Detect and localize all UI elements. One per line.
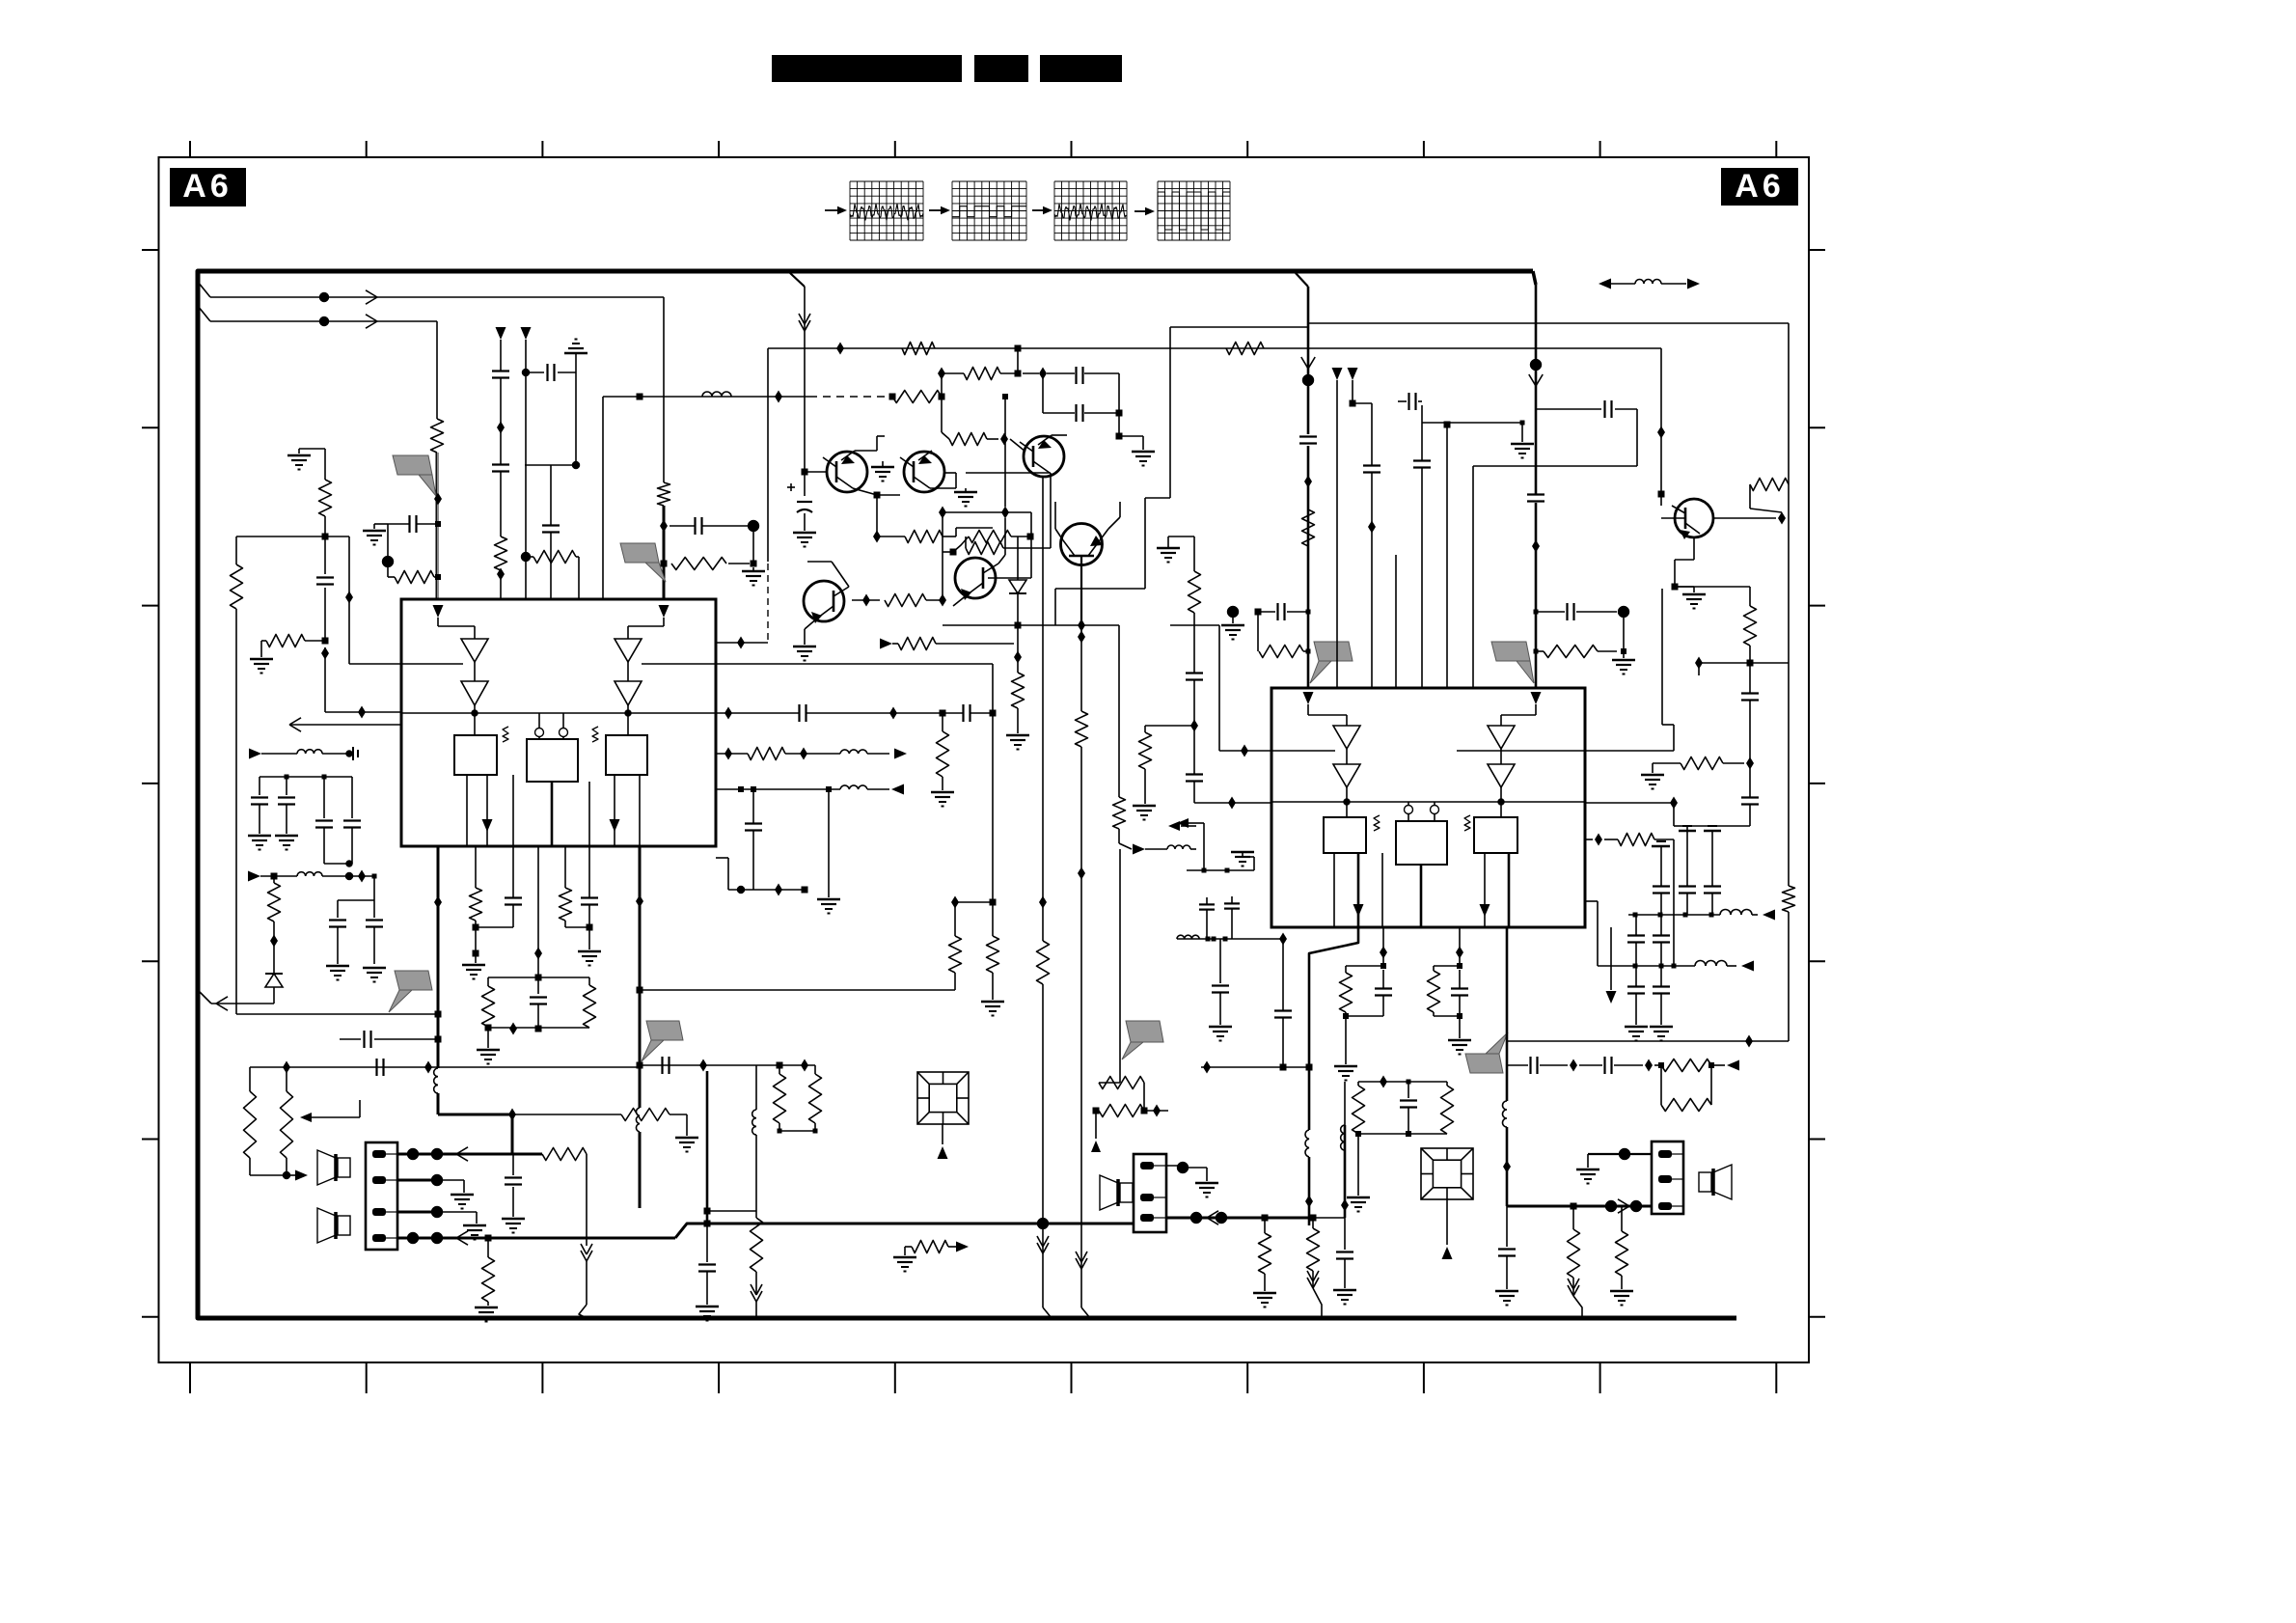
U1 squiggle 2: [592, 727, 598, 742]
cluster C legs: [1353, 1082, 1454, 1137]
double chevron x608: [581, 1244, 592, 1261]
resistor R210: [1568, 1206, 1580, 1294]
U2 box arrows: [1353, 904, 1490, 917]
capacitor C154: [248, 777, 271, 850]
Q3 base wire: [1025, 451, 1033, 453]
wire J1 pin2: [397, 1174, 474, 1209]
wire column x1723: [1662, 589, 1674, 751]
wire riser x1722: [1660, 348, 1662, 482]
waveform scope grid 1: [850, 181, 923, 240]
resistor R121: [902, 343, 935, 355]
Q7 collector: [998, 518, 1005, 564]
inductor L6: [1695, 961, 1727, 967]
inductor L8: [1305, 1130, 1309, 1157]
wire 1069 vertical: [988, 512, 1031, 578]
wire x834 low: [804, 472, 806, 531]
junction diamond y738: [358, 706, 366, 719]
U1 rail dots: [472, 710, 632, 717]
junction diamond 1761-687: [1695, 657, 1703, 670]
junction diamond 755-781: [724, 748, 732, 760]
junction dots y908: [345, 870, 374, 883]
junction diamond 1121-648: [1078, 619, 1085, 632]
arrow off-page y1001: [1727, 961, 1754, 972]
wire 388 down: [372, 874, 377, 901]
wire net y337: [1170, 323, 1789, 327]
resonator: [322, 747, 358, 760]
junction square 988-572: [950, 549, 957, 556]
U1 buffer A2 link: [474, 662, 476, 681]
wire x1394: [1341, 1125, 1349, 1218]
capacitor C206: [1186, 775, 1203, 782]
resistor R103: [671, 558, 750, 570]
wire pin x600: [521, 551, 579, 600]
capacitor C120: [1077, 367, 1083, 384]
inductor L5: [752, 1110, 756, 1135]
junction diamond 807-922: [775, 884, 782, 896]
Q3 collector down: [1043, 473, 1050, 477]
wire x1394 up link: [1344, 1082, 1346, 1125]
callout flag F3: [642, 1021, 683, 1061]
junction diamond y361-871: [836, 343, 844, 355]
junction diamond 1277-832: [1228, 797, 1236, 810]
resistor R102: [658, 482, 670, 506]
wire x337 to U1 pin y739: [325, 647, 401, 712]
junction square 977-739: [940, 710, 946, 717]
capacitor C212: [1741, 694, 1759, 701]
signal arrow down x545: [521, 327, 532, 340]
wire y908 net: [248, 871, 349, 882]
zener diode D2: [265, 941, 283, 1004]
capacitor C204: [1398, 393, 1422, 410]
U1 cell box 2: [527, 739, 578, 782]
junction square 663-1104: [637, 1062, 643, 1069]
cluster A: [1340, 963, 1393, 1019]
wire 1735 south: [1674, 803, 1687, 826]
arrow off-page y948: [1752, 910, 1775, 921]
junction diamond 1290-778: [1219, 745, 1271, 757]
U1 box1 arrow: [482, 819, 493, 832]
waveform arrow 2: [929, 206, 950, 214]
wire x362 to U1: [349, 536, 401, 664]
junction diamond 444-1106: [424, 1061, 432, 1074]
arrow off-page 1187: [1133, 844, 1196, 855]
wire net y1104 far right: [1507, 1057, 1739, 1074]
Q6 collector wire: [807, 562, 849, 587]
wire y648 into U2 area: [1170, 625, 1219, 751]
sheet label A6 right: [1721, 168, 1798, 206]
cluster C vertical up: [1382, 1069, 1384, 1082]
cluster A ground: [1334, 1016, 1357, 1081]
wire y1077 stub: [340, 1031, 438, 1048]
resistor R203: [1750, 479, 1789, 513]
wire y1255: [707, 1210, 756, 1212]
capacitor C172: [745, 789, 762, 890]
junction diamond 1041-455: [1000, 433, 1025, 453]
ground G142: [477, 1028, 500, 1064]
wire net y687: [1699, 662, 1789, 664]
wire pin x1527: [1472, 466, 1474, 688]
wire column x245: [236, 536, 438, 1014]
capacitor C103: [670, 517, 748, 535]
resistor R146: [987, 936, 999, 1000]
border tick marks: [142, 141, 1825, 1393]
resistor R104: [231, 564, 243, 609]
ground G112 up: [564, 340, 588, 373]
junction diamond 1847-540: [1778, 512, 1786, 525]
junction square 1186-1151: [1141, 1108, 1148, 1114]
resistor R151: [281, 1067, 293, 1175]
wire riser x453: [436, 321, 439, 599]
Q2 collector wire: [930, 473, 956, 488]
capacitor C158: [696, 1226, 719, 1321]
junction square 1330-1106: [1280, 1064, 1287, 1071]
Q8 collector up: [1055, 502, 1063, 540]
wire R pair bottom 2: [250, 1171, 290, 1179]
resistor R141: [470, 888, 482, 921]
wire y895 join: [324, 861, 353, 877]
capacitor C201: [1299, 437, 1317, 444]
junction square x834-489: [802, 469, 808, 476]
junction diamond 990-935: [951, 896, 959, 909]
dashed segment y411: [809, 396, 892, 398]
ground G141b: [462, 965, 485, 979]
wire x796 riser: [767, 348, 769, 562]
junction diamond 297-1106: [283, 1061, 290, 1074]
ground G146: [981, 1002, 1004, 1016]
resistor R106: [261, 635, 325, 658]
speaker SP3: [1699, 1165, 1732, 1199]
wire column x1814: [1687, 663, 1750, 831]
cluster B diamond: [1456, 927, 1463, 966]
resistor R160: [1037, 941, 1050, 984]
wire 259 down: [249, 1067, 251, 1091]
U2 buffer A1: [1333, 726, 1360, 749]
U1 internal rail y739: [401, 712, 716, 714]
inductor L4: [297, 750, 322, 754]
arrow down x1592: [1529, 374, 1543, 386]
junction dot x597: [572, 461, 580, 469]
cap chain x1722: [1653, 915, 1670, 966]
capacitor C157: [343, 777, 361, 864]
waveform arrow 1: [825, 206, 847, 214]
junction diamond 1562-1209: [1503, 1161, 1511, 1173]
junction diamond 1055-681: [1014, 625, 1022, 673]
resistor R105: [299, 449, 332, 536]
wire net y1104: [250, 1065, 815, 1067]
junction diamond 976-387: [938, 368, 945, 380]
resistor R132: [1012, 673, 1025, 733]
wire x976 down: [942, 397, 949, 439]
cluster A diamond: [1380, 927, 1387, 966]
resistor R152: [268, 876, 281, 941]
junction diamond 1735-832: [1670, 797, 1678, 810]
wire Q1 down: [876, 495, 878, 536]
resistor R143: [584, 977, 596, 1028]
junction squares y805: [285, 775, 327, 780]
junction diamond 1355-1245: [1305, 1196, 1313, 1208]
junction diamond 926-739: [889, 707, 897, 720]
capacitor C215: [1333, 1218, 1356, 1305]
U2 cell box 3: [1474, 817, 1517, 853]
wire x493-x532 link: [476, 926, 513, 928]
resistor R170: [937, 713, 949, 790]
junction square y556: [322, 534, 329, 540]
junction square 1304-634: [1255, 609, 1262, 616]
wire R pair bottom: [778, 1129, 818, 1134]
junction squares y973: [1206, 937, 1228, 942]
wire 990-1029 link: [955, 901, 993, 903]
wire U1 right pin y666: [716, 642, 768, 644]
border frame outer: [159, 157, 1810, 1362]
capacitor C170: [800, 704, 806, 722]
wire x1160 drop: [1118, 625, 1120, 797]
cap loop y424-483: [1473, 400, 1637, 466]
capacitor C106 col x337: [316, 536, 334, 641]
wire pin x519: [500, 340, 502, 599]
capacitor C159: [502, 1154, 525, 1233]
wire riser x1356: [1307, 287, 1310, 688]
resistor R205: [1189, 571, 1201, 613]
ground G207: [1612, 654, 1635, 674]
resistor R161: [1076, 711, 1088, 747]
junction square 1160-428: [1116, 410, 1123, 417]
U2 buffer A out: [1346, 787, 1348, 817]
resistor R100: [388, 571, 441, 584]
speaker SP4: [1100, 1175, 1133, 1210]
off-sheet link symbol: [1599, 279, 1700, 289]
resistor R120: [892, 391, 942, 403]
wire y411 up-branch: [941, 373, 943, 397]
U1 buffer A2: [461, 681, 488, 705]
resistor R101: [431, 419, 444, 453]
junction diamond 454-935: [434, 896, 442, 909]
resistor R144: [560, 888, 590, 927]
double chevron x1121: [1076, 1252, 1087, 1269]
double chevron x1081: [1037, 1236, 1049, 1253]
junction diamond 755-739: [724, 707, 732, 720]
arrow on VIN1: [366, 290, 377, 304]
junction diamond 1081-387: [1039, 368, 1047, 380]
U1 box3 outputs: [615, 775, 640, 846]
resistor R120c: [949, 433, 998, 446]
U1 buffer chain right jog: [628, 618, 664, 639]
junction diamond Q6 base: [862, 594, 870, 607]
junction dot on VIN2: [319, 316, 329, 326]
arrow up X2: [1442, 1247, 1453, 1259]
junction square 663-1026: [637, 987, 643, 994]
junction diamond 834-1104: [801, 1059, 808, 1072]
wire x1265 down: [1209, 939, 1232, 1041]
U1 buffer B link: [627, 662, 629, 681]
waveform arrow 4: [1134, 207, 1155, 215]
resistor R110: [495, 536, 507, 570]
junction diamond 1592-566: [1532, 540, 1540, 553]
junction diamond 284-975: [270, 935, 278, 948]
Q6 base wire: [844, 599, 880, 601]
resistor R163: [1099, 1059, 1144, 1111]
capacitor C150: [377, 1059, 384, 1076]
junction square 1357-1106: [1306, 1064, 1313, 1071]
U1 box3 arrow: [610, 819, 620, 832]
title bar 3: [1040, 55, 1122, 82]
U2 buffer B1: [1488, 726, 1515, 749]
inductor L7: [1720, 910, 1752, 915]
wire exit left arrow: [199, 991, 274, 1010]
wire 1761 down: [1698, 663, 1700, 675]
title bar 2: [974, 55, 1028, 82]
resistor R213: [1307, 1218, 1320, 1286]
waveform arrow 3: [1032, 206, 1052, 214]
cluster B ground: [1448, 1016, 1471, 1055]
wire arrow-down x1670: [1606, 927, 1617, 1004]
capacitor C202: [1527, 495, 1544, 502]
U2 buffer chain left jog: [1308, 704, 1347, 726]
resistor R155: [751, 1211, 763, 1293]
node TP1 dot: [748, 520, 759, 532]
wire x859 down: [828, 789, 830, 897]
callout flag F2: [620, 543, 666, 582]
U2 box outputs: [1334, 853, 1509, 927]
callout flag F6: [1491, 642, 1534, 683]
ground G170: [931, 792, 954, 807]
ground G171: [817, 899, 840, 914]
resistor R133: [898, 638, 1014, 650]
U2 pin circle 2: [1431, 802, 1439, 821]
capacitor C102: [388, 515, 441, 533]
inductor L12: [840, 785, 867, 789]
wire x1330 cap: [1274, 933, 1292, 1068]
transistor Q6: [804, 581, 849, 629]
junction diamond 1121-647b: [1078, 631, 1085, 644]
resistor R123: [877, 528, 993, 543]
pin entry arrow U1 pin-a: [433, 605, 444, 618]
wire right loop vertical: [1788, 323, 1790, 1041]
capacitor C213: [1741, 798, 1759, 805]
wire pin x571: [525, 465, 576, 599]
junction dot 768-922: [737, 886, 745, 894]
resistor R212: [1253, 1218, 1276, 1307]
ground G209: [1641, 763, 1664, 789]
U1 box1 outputs: [467, 775, 487, 846]
shield box X2: [1421, 1148, 1473, 1245]
wire pin x545: [525, 340, 527, 599]
junction diamond 1042-531: [1001, 507, 1009, 519]
wire y610 branch: [1055, 498, 1170, 625]
capacitor C121: [1077, 404, 1083, 422]
junction diamond 1814-791: [1746, 757, 1754, 770]
junction square 1592-675: [1534, 649, 1539, 654]
wire riser x1592: [1535, 285, 1538, 688]
ground G130: [793, 533, 816, 547]
wire net y739 ext: [716, 712, 993, 714]
capacitor C155: [275, 777, 298, 850]
Q6 emitter ground: [793, 629, 816, 661]
junction diamond 909-556: [873, 531, 881, 543]
junction square 834-922: [802, 887, 808, 894]
Q1 base wire: [805, 471, 827, 473]
junction square 558-1066: [535, 1026, 542, 1032]
inductor L1: [702, 392, 731, 397]
arrow off-page y818: [891, 784, 904, 795]
resistor R148: [809, 1065, 822, 1131]
wire y778 out: [1585, 750, 1674, 752]
Q8 emitter up: [1108, 502, 1120, 529]
RC loop top: [488, 977, 589, 978]
wire net y438: [1422, 421, 1534, 458]
junction diamond 1081-935: [1039, 896, 1047, 909]
resistor R204: [1744, 606, 1757, 663]
ground G140: [871, 461, 894, 481]
resistor R153: [542, 1148, 587, 1161]
capacitor C203: [1363, 466, 1380, 473]
inductor L2: [434, 1068, 438, 1093]
pin entry arrow U2 pin-a: [1303, 692, 1314, 704]
resistor R202: [1783, 886, 1795, 912]
U2 rail dots: [1344, 799, 1505, 806]
junction square 808-1104: [777, 1062, 783, 1069]
wire 977 up to Q7: [943, 552, 953, 600]
junction square 1029-739: [990, 710, 997, 717]
junction squares x493: [473, 921, 479, 963]
U1 buffer B out: [627, 705, 629, 735]
junction diamond x362: [345, 591, 353, 604]
test point dot 1278: [1221, 606, 1244, 640]
diode D1 tap: [1018, 536, 1030, 537]
capacitor C171: [964, 704, 970, 722]
inductor L10: [1341, 1125, 1345, 1150]
svg-text:A6: A6: [182, 168, 232, 205]
wire pin x1386: [1332, 368, 1343, 688]
ground G141: [954, 488, 977, 507]
junction diamond 729-1104: [699, 1059, 707, 1072]
ground G143: [578, 927, 601, 966]
capacitor C140: [505, 846, 522, 927]
bottom-left U2 cluster: [1187, 834, 1254, 873]
ground G103: [742, 567, 765, 586]
title bar 1: [772, 55, 962, 82]
wire y832 out: [1585, 802, 1674, 804]
resistor R145: [949, 936, 962, 973]
polarized capacitor C130: [787, 483, 812, 512]
capacitor C152: [329, 900, 374, 964]
RC loop bottom: [488, 1027, 589, 1029]
arrow resistor feed: [880, 639, 898, 649]
junction diamond 833-781: [800, 748, 807, 760]
wire net y1001: [1598, 965, 1695, 967]
wire x597 down: [575, 372, 577, 465]
resistor R122: [1226, 343, 1264, 355]
arrow up supply: [1091, 1111, 1101, 1152]
junction diamond 663-934: [636, 895, 643, 908]
junction square y411-663: [637, 394, 643, 400]
wire y1158 stub: [300, 1100, 360, 1122]
ground G152: [326, 966, 349, 980]
arrow off-page 1213: [1168, 821, 1196, 831]
arrow入 y781: [249, 749, 297, 759]
junction square 1055-648: [1015, 622, 1022, 629]
U2 buffer A link: [1346, 749, 1348, 764]
U2 buffer B out: [1500, 787, 1502, 817]
wire x1562 gray: [1506, 927, 1509, 1206]
cluster C ground: [1347, 1134, 1370, 1212]
ground G105: [287, 455, 311, 470]
capacitor C111: [492, 465, 509, 472]
ground G120: [1132, 452, 1155, 466]
junction square 1160-452: [1116, 433, 1123, 440]
cap chain x1722b: [1650, 966, 1673, 1041]
U1 pin circle 1: [535, 713, 544, 739]
U2 buffer chain right jog: [1501, 704, 1536, 726]
